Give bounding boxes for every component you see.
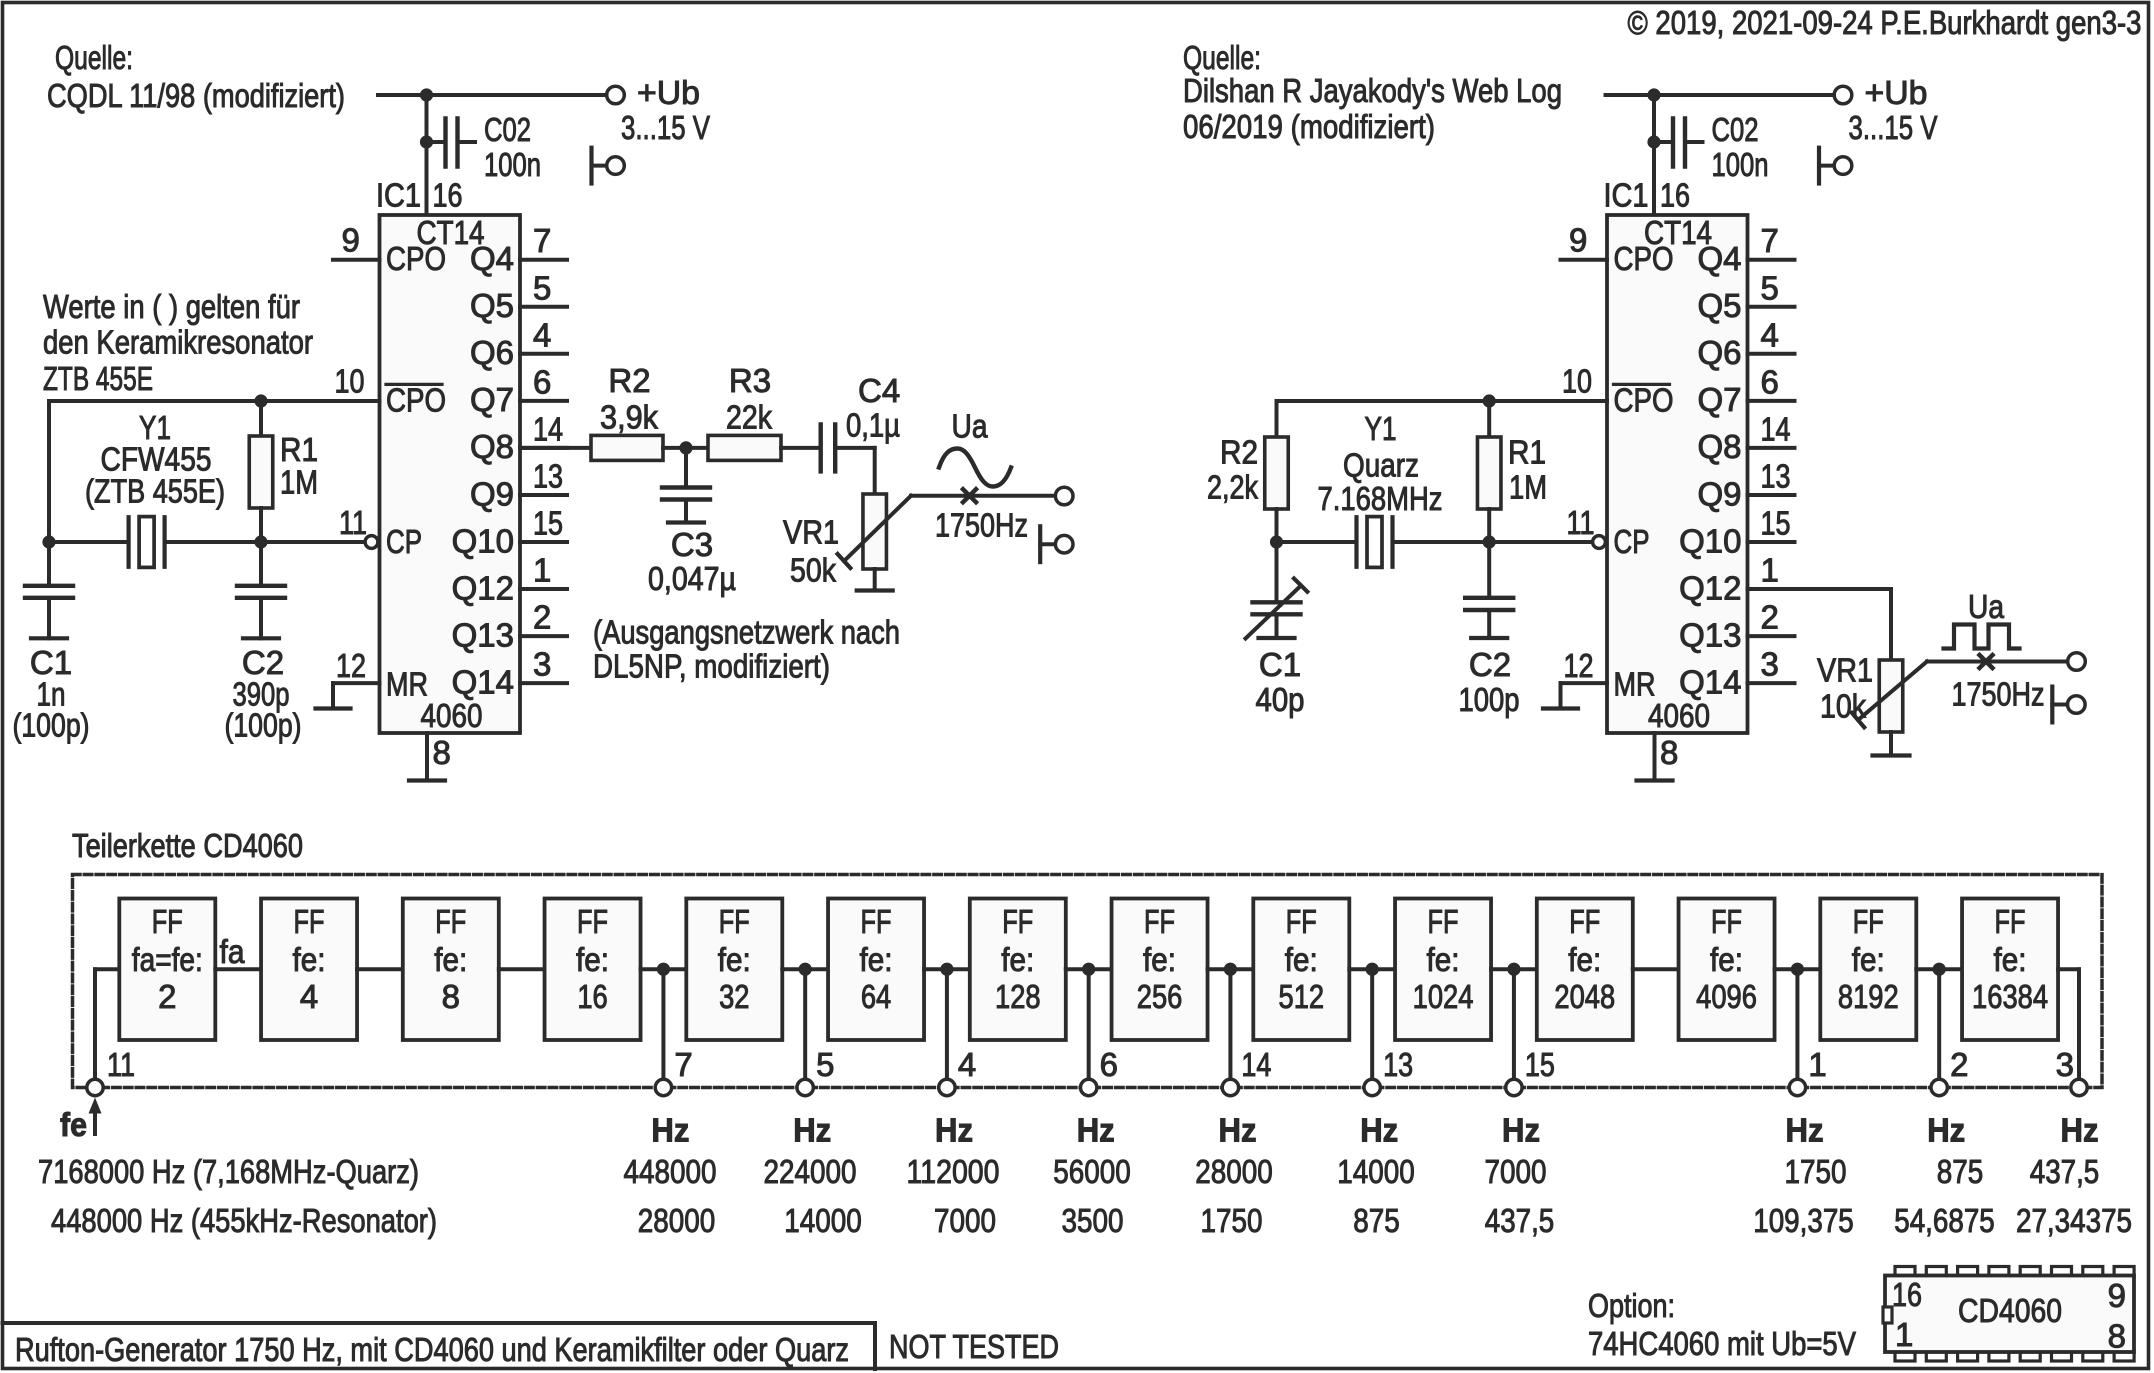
potentiometer VR1 50k <box>863 494 887 569</box>
IC1 left pin 3 Q14 <box>520 681 567 685</box>
wire FF2 to FF3 <box>357 967 403 971</box>
svg-text:3...15 V: 3...15 V <box>1849 109 1938 146</box>
svg-text:fe:: fe: <box>576 941 609 978</box>
svg-text:Hz: Hz <box>1927 1112 1965 1149</box>
capacitor C1 1n (100p) (left) <box>47 542 51 584</box>
IC1 right pin 2 Q13 <box>1748 634 1795 638</box>
svg-text:CPO: CPO <box>386 240 446 277</box>
flip-flop FF10 (fe:1024) <box>1395 899 1491 1041</box>
svg-text:11: 11 <box>339 504 367 541</box>
svg-text:2048: 2048 <box>1554 978 1615 1015</box>
svg-text:FF: FF <box>1569 903 1600 940</box>
svg-text:Q8: Q8 <box>470 428 514 465</box>
svg-text:CPO: CPO <box>386 382 446 419</box>
svg-text:6: 6 <box>533 363 551 400</box>
svg-text:Hz: Hz <box>935 1112 973 1149</box>
svg-text:Q5: Q5 <box>1697 287 1741 324</box>
svg-text:15: 15 <box>533 505 563 542</box>
tap to pin 15 <box>1507 963 1520 976</box>
svg-text:FF: FF <box>577 903 608 940</box>
wire R2 to R3 <box>663 446 708 450</box>
svg-text:1: 1 <box>533 552 551 589</box>
svg-text:6: 6 <box>1100 1046 1118 1083</box>
svg-text:Q6: Q6 <box>470 334 514 371</box>
svg-text:11: 11 <box>107 1046 135 1083</box>
IC1 right pin 5 Q5 <box>1748 305 1795 309</box>
capacitor C02 100n (right) <box>1647 135 1660 148</box>
wire pin10 feedback (right) <box>1277 399 1608 403</box>
wire VR1 wiper to output terminal <box>911 494 1055 498</box>
svg-text:128: 128 <box>995 978 1041 1015</box>
wire FF1 to FF2 <box>215 967 261 971</box>
svg-text:FF: FF <box>1144 903 1175 940</box>
svg-text:CD4060: CD4060 <box>1958 1292 2062 1329</box>
IC1 left pin 2 Q13 <box>520 634 567 638</box>
svg-text:15: 15 <box>1525 1046 1555 1083</box>
IC1 left pin 6 Q7 <box>520 399 567 403</box>
svg-text:Q4: Q4 <box>470 240 514 277</box>
svg-text:Q10: Q10 <box>1679 522 1741 559</box>
svg-text:14000: 14000 <box>784 1202 862 1239</box>
svg-text:fe:: fe: <box>718 941 751 978</box>
svg-text:Q9: Q9 <box>470 475 514 512</box>
flip-flop FF1 (fe:2) <box>119 899 215 1041</box>
svg-text:C2: C2 <box>1469 646 1511 683</box>
node junction at C3 tap <box>679 441 692 454</box>
svg-text:Q8: Q8 <box>1697 428 1741 465</box>
svg-text:fe:: fe: <box>1285 941 1318 978</box>
svg-text:56000: 56000 <box>1053 1153 1131 1190</box>
square wave symbol <box>1944 625 2020 649</box>
svg-text:16: 16 <box>577 978 607 1015</box>
svg-text:437,5: 437,5 <box>1485 1202 1555 1239</box>
svg-text:3500: 3500 <box>1062 1202 1124 1239</box>
svg-text:CP: CP <box>386 523 422 560</box>
capacitor C2 390p (100p) (left) <box>259 542 263 584</box>
resistor R1 1M (left) <box>259 401 263 436</box>
svg-text:FF: FF <box>1286 903 1317 940</box>
capacitor C02 100n (left) <box>420 135 433 148</box>
IC1 left pin 1 Q12 <box>520 587 567 591</box>
node junctions (right osc) <box>1483 394 1496 407</box>
svg-text:06/2019 (modifiziert): 06/2019 (modifiziert) <box>1183 108 1435 145</box>
svg-text:Teilerkette CD4060: Teilerkette CD4060 <box>72 827 303 864</box>
svg-text:Q14: Q14 <box>1679 663 1741 700</box>
svg-text:3,9k: 3,9k <box>600 399 658 436</box>
svg-text:0,1µ: 0,1µ <box>846 407 900 444</box>
svg-text:13: 13 <box>1761 457 1791 494</box>
svg-text:IC1: IC1 <box>1604 177 1649 214</box>
svg-text:R2: R2 <box>1220 434 1258 471</box>
svg-text:9: 9 <box>342 222 360 259</box>
svg-text:fe:: fe: <box>1427 941 1460 978</box>
tap to pin 2 <box>1933 963 1946 976</box>
capacitor C3 0,047µ <box>684 448 688 486</box>
svg-text:FF: FF <box>1995 903 2026 940</box>
svg-text:C02: C02 <box>1712 111 1759 148</box>
svg-text:fe:: fe: <box>434 941 467 978</box>
svg-text:3: 3 <box>2056 1046 2074 1083</box>
flip-flop FF9 (fe:512) <box>1253 899 1349 1041</box>
wire FF12 to FF13 <box>1775 967 1821 971</box>
svg-text:7: 7 <box>1761 222 1779 259</box>
svg-text:64: 64 <box>861 978 891 1015</box>
terminal +Ub (right) <box>1834 86 1852 104</box>
svg-text:FF: FF <box>1711 903 1742 940</box>
wire fe input to FF1 <box>95 967 119 971</box>
wire C4 to VR1 <box>873 448 877 494</box>
node junctions (left osc) <box>42 535 55 548</box>
svg-text:VR1: VR1 <box>783 514 839 551</box>
node junction on rail (right) <box>1647 88 1660 101</box>
wire FF11 to FF12 <box>1633 967 1679 971</box>
svg-text:12: 12 <box>1564 647 1594 684</box>
pin 11 terminal <box>87 1079 103 1095</box>
svg-text:7: 7 <box>533 222 551 259</box>
svg-text:(100p): (100p) <box>225 707 302 744</box>
svg-text:VR1: VR1 <box>1817 652 1873 689</box>
svg-text:fe: fe <box>60 1106 87 1143</box>
svg-text:28000: 28000 <box>1195 1153 1273 1190</box>
fe input arrow <box>93 1112 97 1134</box>
svg-text:3: 3 <box>1761 646 1779 683</box>
svg-text:8192: 8192 <box>1838 978 1899 1015</box>
wire FF3 to FF4 <box>499 967 545 971</box>
svg-text:R1: R1 <box>280 431 318 468</box>
svg-text:11: 11 <box>1567 504 1595 541</box>
svg-text:Q9: Q9 <box>1697 475 1741 512</box>
svg-text:1M: 1M <box>280 464 318 501</box>
svg-text:15: 15 <box>1761 505 1791 542</box>
svg-text:Q7: Q7 <box>1697 381 1741 418</box>
svg-text:fe:: fe: <box>1001 941 1034 978</box>
svg-text:16: 16 <box>1892 1276 1922 1313</box>
svg-text:Hz: Hz <box>1360 1112 1398 1149</box>
svg-text:FF: FF <box>1002 903 1033 940</box>
svg-text:Hz: Hz <box>651 1112 689 1149</box>
sine wave symbol <box>939 449 1011 487</box>
svg-text:fe:: fe: <box>293 941 326 978</box>
svg-text:2: 2 <box>533 599 551 636</box>
svg-text:IC1: IC1 <box>376 177 421 214</box>
svg-text:8: 8 <box>2108 1318 2126 1355</box>
svg-text:fa: fa <box>220 933 246 970</box>
svg-text:7.168MHz: 7.168MHz <box>1318 480 1443 517</box>
svg-text:8: 8 <box>1660 734 1678 771</box>
svg-text:R1: R1 <box>1508 434 1546 471</box>
svg-text:Quarz: Quarz <box>1343 447 1419 484</box>
svg-text:9: 9 <box>2108 1277 2126 1314</box>
svg-text:Y1: Y1 <box>1365 410 1397 447</box>
IC1 left pin 8 ground <box>425 733 429 779</box>
svg-text:40p: 40p <box>1256 681 1305 718</box>
svg-text:CPO: CPO <box>1614 240 1674 277</box>
tap to pin 1 <box>1791 963 1804 976</box>
svg-text:(Ausgangsnetzwerk nach: (Ausgangsnetzwerk nach <box>593 614 900 651</box>
IC1 right pin 11 CP with inverter bubble <box>1593 536 1606 549</box>
svg-text:54,6875: 54,6875 <box>1894 1202 1995 1239</box>
svg-text:fe:: fe: <box>1852 941 1885 978</box>
CD4060 DIP package drawing <box>1883 1267 2134 1362</box>
svg-text:R3: R3 <box>729 362 771 399</box>
IC1 right pin 7 Q4 <box>1748 258 1795 262</box>
svg-text:16: 16 <box>433 177 463 214</box>
svg-text:448000 Hz (455kHz-Resonator): 448000 Hz (455kHz-Resonator) <box>51 1202 437 1239</box>
svg-text:Q12: Q12 <box>452 569 514 606</box>
wire R3 to C4 <box>781 446 819 450</box>
wire FF5 to FF6 <box>782 967 828 971</box>
crystal Y1 Quarz 7.168MHz <box>1354 517 1358 567</box>
svg-text:FF: FF <box>294 903 325 940</box>
tap to pin 5 <box>799 963 812 976</box>
measuring point X (left) <box>963 489 976 502</box>
svg-text:MR: MR <box>386 666 428 703</box>
svg-text:437,5: 437,5 <box>2030 1153 2100 1190</box>
wire rail to pin 16 (right) <box>1652 95 1656 215</box>
svg-text:4060: 4060 <box>421 697 483 734</box>
svg-text:MR: MR <box>1614 666 1656 703</box>
svg-text:C3: C3 <box>671 526 713 563</box>
capacitor C4 0,1µ <box>819 424 823 471</box>
IC1 left pin 4 Q6 <box>520 352 567 356</box>
svg-text:Q10: Q10 <box>452 522 514 559</box>
wire FF7 to FF8 <box>1066 967 1112 971</box>
svg-text:4: 4 <box>300 978 318 1015</box>
svg-text:(ZTB 455E): (ZTB 455E) <box>85 473 225 510</box>
svg-text:FF: FF <box>1428 903 1459 940</box>
svg-text:Q7: Q7 <box>470 381 514 418</box>
IC1 right pin 15 Q10 <box>1748 540 1795 544</box>
IC1 right pin 1 Q12 <box>1748 587 1795 591</box>
IC1 left pin 9 CPO <box>333 258 380 262</box>
resonator Y1 CFW455 (ZTB 455E) <box>127 517 131 567</box>
svg-text:fe:: fe: <box>1568 941 1601 978</box>
svg-text:32: 32 <box>719 978 749 1015</box>
svg-text:1750: 1750 <box>1201 1202 1263 1239</box>
wire Q8 pin14 to R2 (left output) <box>520 446 591 450</box>
wire oscillator node to CP (left) <box>49 540 129 544</box>
svg-text:224000: 224000 <box>764 1153 857 1190</box>
terminal Ua output (right) <box>2068 653 2086 671</box>
terminal 0V (left) <box>589 148 593 184</box>
IC1 left pin 12 MR with ground <box>333 681 380 685</box>
flip-flop FF3 (fe:8) <box>403 899 499 1041</box>
svg-text:14: 14 <box>1241 1046 1271 1083</box>
IC IC1 CD4060 body (right) <box>1607 215 1748 733</box>
svg-text:4: 4 <box>958 1046 976 1083</box>
wire FF10 to FF11 <box>1491 967 1537 971</box>
svg-text:112000: 112000 <box>907 1153 1000 1190</box>
svg-text:7168000 Hz (7,168MHz-Quarz): 7168000 Hz (7,168MHz-Quarz) <box>38 1153 419 1190</box>
flip-flop FF11 (fe:2048) <box>1537 899 1633 1041</box>
svg-text:5: 5 <box>1761 269 1779 306</box>
svg-text:Quelle:: Quelle: <box>55 39 133 76</box>
svg-text:100n: 100n <box>484 146 541 183</box>
tap to pin 3 <box>2058 967 2079 971</box>
resistor R2 2,2k (right) <box>1275 401 1279 437</box>
svg-text:Ua: Ua <box>1968 588 2005 625</box>
svg-text:28000: 28000 <box>638 1202 716 1239</box>
resistor R1 1M (right) <box>1487 401 1491 437</box>
svg-text:Hz: Hz <box>1077 1112 1115 1149</box>
svg-text:100n: 100n <box>1712 146 1769 183</box>
svg-text:C1: C1 <box>1259 646 1301 683</box>
svg-text:7000: 7000 <box>1485 1153 1547 1190</box>
IC1 right pin 9 CPO <box>1561 258 1608 262</box>
wire FF9 to FF10 <box>1349 967 1395 971</box>
svg-text:448000: 448000 <box>624 1153 717 1190</box>
flip-flop FF5 (fe:32) <box>686 899 782 1041</box>
wire FF13 to FF14 <box>1916 967 1962 971</box>
wire VR1 wiper to output terminal (right) <box>1927 660 2067 664</box>
svg-text:1: 1 <box>1895 1316 1913 1353</box>
svg-text:2: 2 <box>1950 1046 1968 1083</box>
svg-text:CP: CP <box>1614 523 1650 560</box>
svg-text:5: 5 <box>533 269 551 306</box>
IC1 left pin 11 CP with inverter bubble <box>365 536 378 549</box>
svg-text:50k: 50k <box>790 552 836 589</box>
svg-text:12: 12 <box>336 647 366 684</box>
svg-text:Ua: Ua <box>952 408 989 445</box>
svg-text:4096: 4096 <box>1696 978 1757 1015</box>
dashed CD4060 boundary box <box>73 875 2103 1088</box>
svg-text:3: 3 <box>533 646 551 683</box>
svg-text:875: 875 <box>1937 1153 1984 1190</box>
svg-text:fa=fe:: fa=fe: <box>132 941 203 978</box>
svg-text:FF: FF <box>861 903 892 940</box>
svg-text:256: 256 <box>1137 978 1183 1015</box>
svg-text:7: 7 <box>674 1046 692 1083</box>
flip-flop FF13 (fe:8192) <box>1820 899 1916 1041</box>
svg-text:1750Hz: 1750Hz <box>935 507 1028 544</box>
svg-text:2: 2 <box>158 978 176 1015</box>
resistor R2 3,9k <box>591 435 663 460</box>
svg-text:C02: C02 <box>484 111 531 148</box>
svg-text:1024: 1024 <box>1413 978 1474 1015</box>
svg-text:Q4: Q4 <box>1697 240 1741 277</box>
svg-text:Rufton-Generator 1750 Hz, mit: Rufton-Generator 1750 Hz, mit CD4060 und… <box>15 1331 849 1368</box>
terminal 0V (right) <box>1817 148 1821 184</box>
wire FF8 to FF9 <box>1208 967 1254 971</box>
IC1 right pin 4 Q6 <box>1748 352 1795 356</box>
svg-text:14: 14 <box>533 410 563 447</box>
svg-text:14: 14 <box>1761 410 1791 447</box>
IC IC1 CD4060 body (left) <box>380 215 521 733</box>
measuring point X (right) <box>1980 655 1993 668</box>
svg-text:C4: C4 <box>858 372 900 409</box>
svg-text:1750Hz: 1750Hz <box>1952 676 2045 713</box>
svg-text:5: 5 <box>816 1046 834 1083</box>
svg-text:Q14: Q14 <box>452 663 514 700</box>
svg-text:Q13: Q13 <box>1679 616 1741 653</box>
svg-text:fe:: fe: <box>1994 941 2027 978</box>
IC1 right pin 3 Q14 <box>1748 681 1795 685</box>
svg-text:8: 8 <box>442 978 460 1015</box>
flip-flop FF8 (fe:256) <box>1112 899 1208 1041</box>
IC1 left pin 14 Q8 <box>520 446 567 450</box>
svg-text:875: 875 <box>1353 1202 1400 1239</box>
flip-flop FF4 (fe:16) <box>545 899 641 1041</box>
svg-text:DL5NP, modifiziert): DL5NP, modifiziert) <box>593 648 830 685</box>
tap to pin 6 <box>1082 963 1095 976</box>
svg-text:(100p): (100p) <box>13 707 90 744</box>
svg-text:© 2019, 2021-09-24 P.E.Burkhar: © 2019, 2021-09-24 P.E.Burkhardt gen3-3 <box>1628 4 2142 41</box>
wire Q12 pin1 to VR1 (right output) <box>1748 587 1892 591</box>
IC1 right pin 8 ground <box>1653 733 1657 779</box>
svg-text:ZTB 455E: ZTB 455E <box>43 360 153 397</box>
resistor R3 22k <box>708 435 781 460</box>
svg-text:74HC4060 mit Ub=5V: 74HC4060 mit Ub=5V <box>1588 1325 1856 1362</box>
svg-text:4060: 4060 <box>1648 697 1710 734</box>
tap to pin 7 <box>657 963 670 976</box>
svg-text:100p: 100p <box>1459 681 1520 718</box>
svg-text:+Ub: +Ub <box>1865 74 1928 111</box>
svg-text:4: 4 <box>533 316 551 353</box>
svg-text:1750: 1750 <box>1785 1153 1847 1190</box>
terminal +Ub (left) <box>607 86 625 104</box>
svg-text:27,34375: 27,34375 <box>2016 1202 2132 1239</box>
svg-text:Dilshan R Jayakody's Web Log: Dilshan R Jayakody's Web Log <box>1183 72 1562 109</box>
svg-text:Hz: Hz <box>2061 1112 2099 1149</box>
svg-text:13: 13 <box>1383 1046 1413 1083</box>
IC1 left pin 7 Q4 <box>520 258 567 262</box>
svg-text:0,047µ: 0,047µ <box>648 560 736 597</box>
svg-text:16: 16 <box>1660 177 1690 214</box>
svg-text:13: 13 <box>533 457 563 494</box>
svg-text:10k: 10k <box>1820 688 1866 725</box>
svg-text:3...15 V: 3...15 V <box>621 109 710 146</box>
svg-text:4: 4 <box>1761 316 1779 353</box>
potentiometer VR1 10k (right) <box>1879 660 1903 732</box>
svg-text:CPO: CPO <box>1614 382 1674 419</box>
IC1 left pin 5 Q5 <box>520 305 567 309</box>
svg-text:9: 9 <box>1569 222 1587 259</box>
svg-text:2: 2 <box>1761 599 1779 636</box>
wire rail to pin 16 (left) <box>425 95 429 215</box>
svg-text:7000: 7000 <box>934 1202 996 1239</box>
variable capacitor C1 40p (right) <box>1275 542 1279 600</box>
svg-text:FF: FF <box>152 903 183 940</box>
svg-text:Q6: Q6 <box>1697 334 1741 371</box>
node junction on rail (left) <box>420 88 433 101</box>
svg-text:FF: FF <box>1853 903 1884 940</box>
flip-flop FF7 (fe:128) <box>970 899 1066 1041</box>
wire +Ub supply rail (right) <box>1606 93 1833 97</box>
svg-text:22k: 22k <box>726 399 772 436</box>
svg-text:FF: FF <box>719 903 750 940</box>
svg-text:1: 1 <box>1808 1046 1826 1083</box>
svg-text:1M: 1M <box>1509 469 1547 506</box>
IC1 right pin 13 Q9 <box>1748 493 1795 497</box>
terminal 0V output (left) <box>1038 526 1042 562</box>
wire FF6 to FF7 <box>924 967 970 971</box>
svg-text:+Ub: +Ub <box>637 74 700 111</box>
svg-text:14000: 14000 <box>1337 1153 1415 1190</box>
IC1 left pin 13 Q9 <box>520 493 567 497</box>
svg-text:fe:: fe: <box>1710 941 1743 978</box>
svg-text:109,375: 109,375 <box>1753 1202 1854 1239</box>
IC1 right pin 14 Q8 <box>1748 446 1795 450</box>
svg-text:10: 10 <box>1562 363 1592 400</box>
svg-text:1: 1 <box>1761 552 1779 589</box>
svg-text:fe:: fe: <box>1143 941 1176 978</box>
svg-text:Hz: Hz <box>793 1112 831 1149</box>
flip-flop FF14 (fe:16384) <box>1962 899 2058 1041</box>
wire pin10 feedback (left) <box>49 399 380 403</box>
svg-text:CQDL 11/98 (modifiziert): CQDL 11/98 (modifiziert) <box>47 77 345 114</box>
flip-flop FF2 (fe:4) <box>261 899 357 1041</box>
tap to pin 14 <box>1224 963 1237 976</box>
